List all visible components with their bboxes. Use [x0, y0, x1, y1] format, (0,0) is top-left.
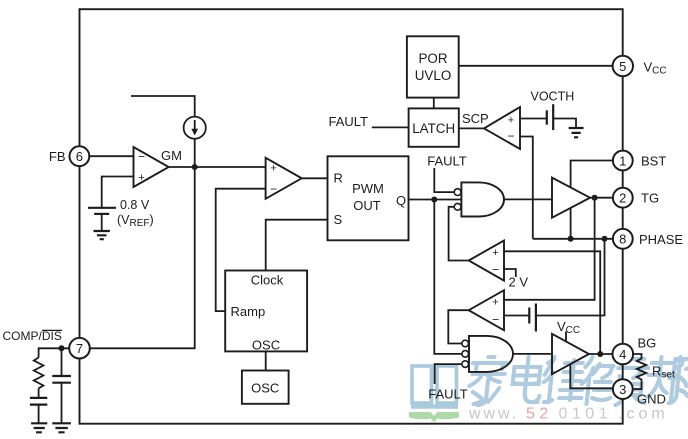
wire pin7 to externals	[39, 348, 70, 357]
ground (VREF)	[94, 231, 110, 239]
watermark hanzi 家电维修资料网	[467, 357, 688, 405]
svg-text:1: 1	[619, 153, 626, 168]
svg-text:BST: BST	[641, 154, 666, 169]
svg-text:+: +	[270, 163, 276, 175]
svg-text:POR: POR	[418, 51, 447, 66]
wire capacitor to ground	[553, 119, 576, 129]
watermark url www.520101.com	[468, 406, 669, 423]
node PHASE b	[602, 236, 608, 242]
capacitor C-VOCTH	[546, 110, 548, 124]
svg-text:BG: BG	[638, 336, 657, 351]
wire node down to pin 7 line	[90, 167, 195, 348]
latch U-LATCH	[409, 108, 459, 146]
svg-text:FAULT: FAULT	[428, 387, 468, 402]
svg-text:Clock: Clock	[251, 273, 284, 288]
pin 7 COMP/DIS	[69, 338, 90, 359]
nand gate TG (2 inputs)	[461, 182, 504, 216]
wire OSC to OSC2	[265, 351, 267, 370]
node GM output	[192, 164, 198, 170]
svg-text:7: 7	[76, 341, 83, 356]
comparator 2V (upper)	[469, 241, 504, 281]
comparator lower (cap sense)	[469, 290, 504, 330]
svg-text:TG: TG	[641, 191, 659, 206]
comparator PWM	[266, 158, 302, 199]
svg-text:R: R	[334, 171, 343, 186]
node ext	[59, 345, 65, 351]
svg-text:FB: FB	[49, 149, 66, 164]
svg-text:−: −	[270, 182, 277, 196]
svg-text:3: 3	[619, 382, 626, 397]
watermark green book	[409, 412, 459, 423]
resistor R-comp	[34, 358, 44, 389]
svg-text:COMP/DIS: COMP/DIS	[3, 329, 62, 343]
wire GM plus to 0.8V ref	[102, 177, 134, 208]
wire PHASE rail	[533, 238, 613, 240]
ground (VOCTH)	[569, 128, 584, 137]
wire FAULT to BG gate	[435, 364, 462, 384]
svg-text:GM: GM	[161, 148, 182, 163]
svg-text:+: +	[138, 172, 144, 184]
wire POR to VCC pin 5	[459, 65, 613, 67]
svg-text:−: −	[507, 129, 514, 143]
svg-text:2: 2	[619, 191, 626, 206]
svg-text:FAULT: FAULT	[329, 114, 369, 129]
svg-text:5: 5	[619, 59, 626, 74]
PWM OUT block	[328, 156, 409, 240]
OSC box 2	[242, 371, 289, 404]
wire comparator minus to Ramp	[216, 189, 266, 311]
pin 4 BG	[613, 344, 634, 365]
op-amp GM	[134, 147, 169, 187]
svg-text:OUT: OUT	[353, 198, 381, 213]
wire POR to LATCH	[433, 98, 435, 109]
svg-text:Ramp: Ramp	[231, 304, 266, 319]
wire SCP plus to capacitor	[520, 118, 547, 120]
wire lower comp minus to capacitor	[504, 315, 529, 317]
resistor Rset	[633, 354, 647, 389]
wire 2V comp out to TG gate lower input	[449, 207, 469, 261]
svg-text:www.: www.	[468, 406, 519, 423]
svg-text:Q: Q	[396, 193, 406, 208]
wire GM output	[169, 166, 266, 168]
wire driver bottom to PHASE	[570, 208, 572, 239]
wire driver bottom to GND	[570, 364, 613, 388]
svg-text:6: 6	[76, 149, 83, 164]
wire BG gate out to driver	[513, 353, 552, 355]
svg-text:SCP: SCP	[462, 111, 489, 126]
outer border box	[80, 9, 623, 424]
driver TG	[552, 178, 590, 218]
wire SCP minus to PHASE	[520, 137, 533, 239]
svg-text:2 V: 2 V	[509, 275, 529, 290]
svg-text:OSC: OSC	[252, 338, 280, 353]
comparator SCP (points left)	[484, 107, 520, 149]
wire comparator out to R	[302, 177, 328, 179]
wire TG out down to lower comparator plus	[504, 198, 595, 300]
svg-text:4: 4	[619, 347, 626, 362]
pin 6 FB	[70, 146, 90, 166]
wire PHASE down to capacitor	[536, 239, 605, 316]
wire FAULT to TG gate	[434, 168, 454, 192]
POR UVLO block U-POR	[407, 36, 459, 97]
watermark logo	[411, 366, 458, 407]
svg-text:.com: .com	[618, 406, 669, 423]
svg-text:VOCTH: VOCTH	[531, 90, 575, 104]
svg-text:S: S	[334, 212, 343, 227]
svg-text:+: +	[492, 247, 498, 259]
svg-text:0101: 0101	[559, 406, 613, 423]
wire 2V comp minus stub	[504, 269, 516, 277]
wire BG out to pin 4	[589, 353, 613, 355]
svg-text:LATCH: LATCH	[412, 121, 455, 136]
wire BST to driver top	[571, 161, 613, 188]
battery 0.8V VREF	[88, 207, 116, 209]
svg-text:−: −	[492, 313, 499, 327]
svg-text:UVLO: UVLO	[415, 68, 451, 83]
svg-text:+: +	[508, 115, 514, 127]
svg-text:+: +	[492, 297, 498, 309]
current source I1	[131, 96, 195, 117]
node Q	[431, 197, 437, 203]
svg-text:OSC: OSC	[251, 381, 279, 396]
svg-text:FAULT: FAULT	[427, 154, 467, 169]
svg-text:52: 52	[526, 406, 553, 423]
wire 2V comp plus to BG out	[504, 251, 600, 354]
wire S input from OSC clock	[266, 220, 328, 271]
capacitor C-phase	[528, 308, 530, 324]
svg-text:0.8 V: 0.8 V	[120, 198, 150, 212]
svg-text:8: 8	[619, 232, 626, 247]
wire VCC stub	[565, 332, 567, 342]
node PHASE a	[568, 236, 574, 242]
nand gate BG (3 inputs)	[469, 336, 513, 372]
wire TG out to pin 2	[590, 197, 613, 199]
ground comp1	[31, 423, 47, 432]
node BG out	[597, 351, 603, 357]
pin 2 TG	[613, 188, 633, 208]
wire FB to GM	[89, 155, 133, 157]
wire TG gate out to driver	[504, 198, 552, 200]
OSC block	[225, 271, 307, 352]
svg-text:−: −	[492, 263, 499, 277]
wire Q node down to BG gate	[434, 200, 462, 354]
ground comp2	[52, 423, 71, 432]
svg-text:GND: GND	[637, 392, 666, 407]
svg-text:PHASE: PHASE	[639, 232, 683, 247]
capacitor C-comp2	[61, 348, 63, 376]
wire lower comp out to BG gate top input	[448, 310, 468, 343]
pin 8 PHASE	[613, 229, 633, 249]
capacitor C-comp1	[38, 388, 40, 398]
wire FAULT to LATCH	[372, 126, 409, 128]
svg-text:−: −	[138, 150, 145, 164]
wire LATCH to SCP comparator	[459, 127, 484, 129]
pin 3 GND	[613, 379, 633, 399]
pin 1 BST	[613, 151, 633, 171]
pin 5 VCC	[613, 56, 633, 76]
node TG out	[592, 195, 598, 201]
driver BG	[552, 334, 589, 374]
wire Q output	[409, 199, 462, 201]
svg-text:PWM: PWM	[352, 181, 384, 196]
